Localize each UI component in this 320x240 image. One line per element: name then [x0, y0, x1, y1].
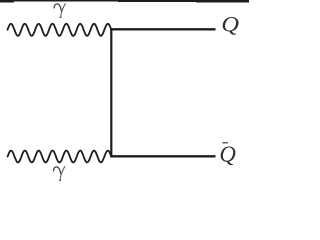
- photon wavy line gamma2 (bottom left): [8, 151, 112, 163]
- quark propagator vertical line: [110, 28, 112, 157]
- label gamma (bottom): [54, 167, 65, 181]
- label Q (top right): [223, 17, 239, 35]
- photon wavy line gamma1 (top left): [8, 24, 112, 36]
- top border rule right thick half: [118, 0, 249, 2]
- top border rule left thick end: [0, 0, 14, 3]
- top border rule right thick end: [196, 0, 249, 3]
- label gamma (top): [54, 4, 65, 18]
- antiquark line to Qbar (bottom right): [110, 155, 215, 157]
- top border rule: [0, 0, 249, 2]
- label Qbar letter Q (bottom right): [221, 146, 236, 165]
- quark line to Q (top right): [110, 28, 215, 30]
- label Qbar overbar: [222, 142, 228, 143]
